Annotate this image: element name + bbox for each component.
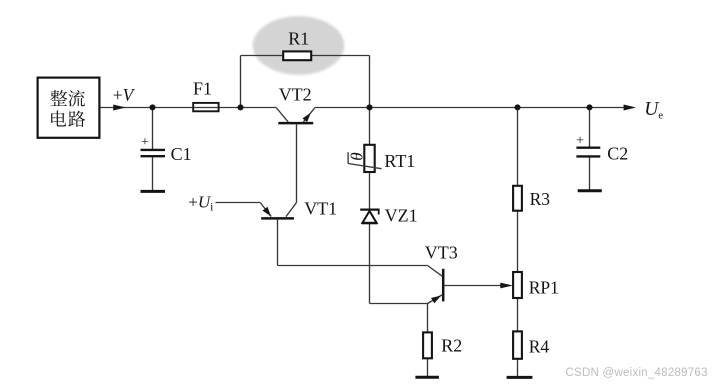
svg-text:+Ui: +Ui [188, 192, 213, 213]
svg-text:+: + [576, 134, 584, 149]
svg-text:RP1: RP1 [529, 278, 559, 298]
svg-text:F1: F1 [193, 79, 212, 99]
svg-text:R3: R3 [530, 189, 551, 209]
svg-text:C1: C1 [171, 144, 192, 164]
svg-text:RT1: RT1 [384, 151, 415, 171]
svg-text:R2: R2 [441, 336, 462, 356]
svg-text:VT3: VT3 [425, 243, 458, 263]
svg-text:VT2: VT2 [279, 85, 312, 105]
svg-text:VZ1: VZ1 [385, 205, 418, 225]
svg-text:CSDN @weixin_48289763: CSDN @weixin_48289763 [566, 367, 708, 379]
svg-text:C2: C2 [607, 144, 628, 164]
svg-text:VT1: VT1 [304, 198, 337, 218]
svg-text:+: + [141, 135, 149, 150]
svg-text:θ: θ [347, 152, 366, 160]
svg-text:R4: R4 [529, 337, 550, 357]
svg-text:+V: +V [113, 85, 136, 105]
svg-text:R1: R1 [288, 29, 309, 49]
